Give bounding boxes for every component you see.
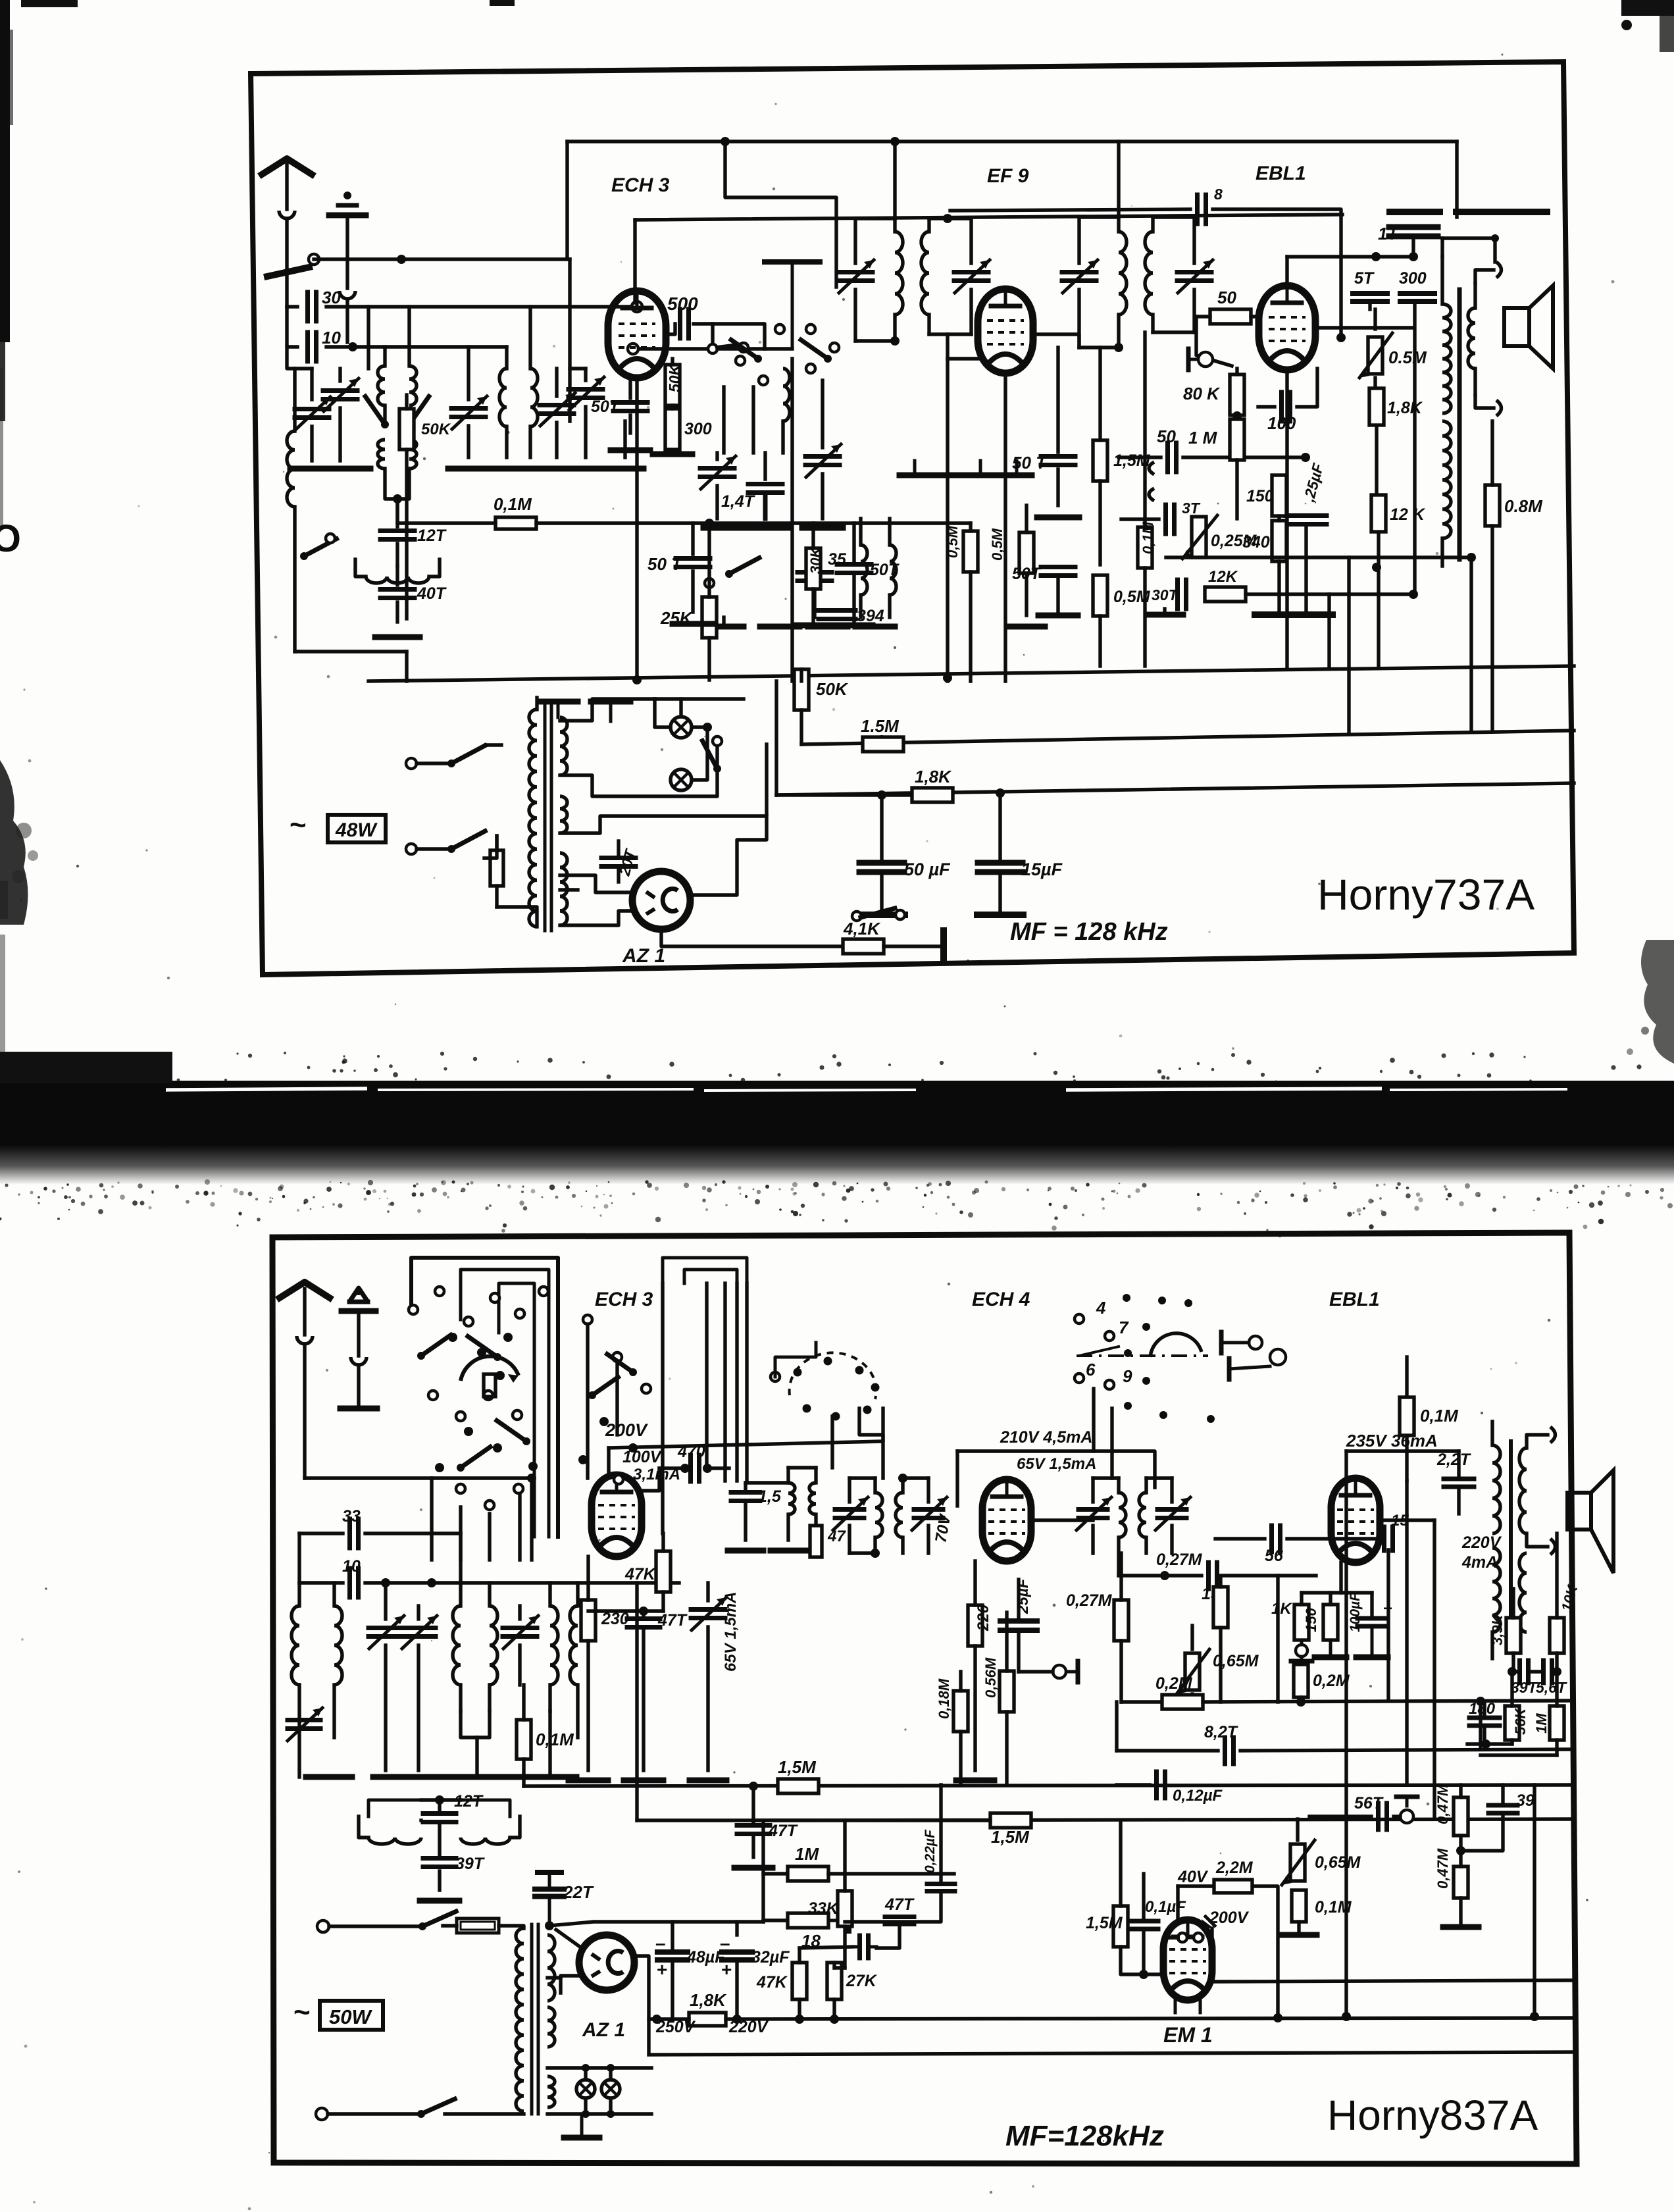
IF2 varcap B — [1177, 217, 1213, 332]
label 50T ech3 — [591, 398, 621, 416]
wire x866 drop — [568, 259, 571, 421]
label 0,1M em — [1315, 1898, 1352, 1916]
resistor 56K — [1505, 1706, 1519, 1740]
switch S2b — [405, 396, 429, 428]
wire cath line — [588, 1609, 663, 1612]
node lampb2 — [582, 2110, 590, 2118]
variable capacitor CA2 — [323, 369, 359, 461]
svg-text:32µF: 32µF — [751, 1948, 790, 1967]
label 47K c — [756, 1973, 788, 1992]
grid top bar — [765, 262, 820, 346]
resistor 0.1M em — [1292, 1890, 1306, 1922]
wire 150-340 — [1277, 516, 1281, 521]
wire IF2 topA — [1079, 215, 1119, 219]
svg-text:30K: 30K — [807, 546, 824, 574]
svg-text:1M: 1M — [1533, 1713, 1550, 1734]
wire 13T a — [1121, 517, 1159, 521]
resistor 1.8K row — [912, 788, 953, 802]
IF1 coil B — [921, 219, 929, 334]
wire 220 dn — [973, 1646, 977, 1770]
node y1131a — [877, 735, 886, 744]
resistor 18 — [788, 1913, 828, 1928]
svg-text:0,12µF: 0,12µF — [1173, 1787, 1223, 1805]
wire 15em up — [1119, 1820, 1122, 1906]
wire IFB1 topA — [850, 1476, 875, 1479]
switch antenna — [267, 254, 319, 276]
ground 837 antenna — [340, 1287, 377, 1408]
label 1M b — [795, 1844, 819, 1864]
label 32 plus — [721, 1959, 732, 1980]
svg-text:1,5M: 1,5M — [1086, 1914, 1123, 1932]
wire long vert 1102 — [723, 1283, 726, 1481]
label 1,5M b1 — [778, 1757, 817, 1777]
svg-text:12T: 12T — [417, 527, 447, 545]
svg-text:0,27M: 0,27M — [1156, 1551, 1203, 1569]
svg-text:10: 10 — [342, 1557, 361, 1576]
scan artifact left edge streak — [0, 0, 13, 527]
svg-text:0,2M: 0,2M — [1155, 1674, 1193, 1693]
stub 18 — [828, 1910, 849, 1931]
label 35 — [828, 550, 847, 569]
wire 470 R — [706, 1466, 729, 1470]
wire lampb top — [547, 2066, 651, 2069]
label 65V 1,5mA — [722, 1592, 740, 1672]
label 300 out — [1399, 269, 1427, 288]
wire 1.8Kb R — [726, 2018, 1574, 2019]
capacitor 8 — [1198, 195, 1206, 224]
wire 15em dn — [1121, 1947, 1163, 1974]
wire 1.8Kb L — [649, 2017, 689, 2020]
tube V8 EM1 — [1163, 1920, 1212, 2000]
wire 027 dn — [1119, 1641, 1123, 1702]
resistor 1K — [1294, 1605, 1309, 1640]
wire 1M vert — [761, 1823, 765, 1922]
svg-text:4,1K: 4,1K — [843, 919, 881, 939]
capacitor 20T — [601, 841, 636, 882]
switch heater — [702, 736, 722, 773]
output transformer core — [1458, 290, 1462, 559]
wire long vert 1007 — [661, 1283, 664, 1468]
wire plate-500 — [666, 324, 675, 334]
wire 47Td dn — [876, 1925, 900, 1948]
wire 500-osc — [694, 324, 765, 349]
label 235V 36mA — [1346, 1431, 1438, 1451]
label 48uF — [686, 1948, 725, 1967]
wire IF1 topA — [855, 217, 895, 220]
ground LB5 — [540, 1774, 576, 1780]
resistor 0.65M em — [1282, 1840, 1315, 1885]
node 80K — [1232, 411, 1242, 421]
label 4,1K — [843, 919, 881, 939]
label 20T — [615, 846, 639, 878]
resistor 0.47M no2 — [1454, 1866, 1468, 1898]
wire join 2667 — [1481, 1753, 1557, 1757]
wire fuse-prim — [497, 907, 537, 927]
svg-text:50T: 50T — [870, 561, 900, 579]
svg-text:8,2T: 8,2T — [1204, 1723, 1239, 1741]
wire 50Ka dn — [799, 710, 803, 744]
wire y795 ext — [792, 521, 971, 525]
wire az1 p2 — [560, 911, 634, 925]
wire 210V top — [957, 1451, 1155, 1487]
label 300 — [684, 420, 712, 438]
label 18 — [801, 1931, 821, 1951]
wire bus 2714 — [524, 1785, 1574, 1786]
node 15b — [1160, 1571, 1169, 1580]
wire lv nest2 — [684, 1270, 737, 1481]
node 39Ta — [1508, 1667, 1517, 1676]
variable capacitor CR2 — [540, 369, 575, 457]
IFB2 coil A — [1119, 1478, 1126, 1576]
ground (antenna input) — [329, 192, 366, 342]
label 500 — [667, 294, 698, 314]
svg-text:1,8K: 1,8K — [1387, 399, 1423, 417]
node 18b2 — [732, 2015, 742, 2024]
resistor 25K — [702, 597, 717, 638]
wire EF9 plate — [1033, 334, 1079, 347]
label 50T avc — [647, 554, 683, 574]
label 100V — [622, 1448, 663, 1466]
node eblt2 — [1409, 252, 1418, 261]
svg-text:30T: 30T — [1152, 586, 1179, 604]
label 150 — [1246, 487, 1274, 505]
wire 22M R — [1253, 1886, 1278, 2018]
wire 15M up — [1098, 347, 1102, 440]
capacitor 0.1uF — [1129, 1921, 1158, 1929]
wire input bus B — [368, 305, 633, 308]
tube V5 ECH3b — [592, 1475, 642, 1556]
svg-text:50K: 50K — [421, 421, 451, 438]
wire sec3 tap — [560, 888, 578, 891]
switch mains2 b — [317, 1911, 456, 1932]
ground CB2 — [419, 1774, 458, 1780]
wire 15M dn — [1098, 481, 1102, 565]
svg-text:40T: 40T — [417, 584, 447, 603]
wire rf link — [570, 367, 586, 370]
capacitor 15uF — [978, 794, 1023, 915]
svg-text:0,1µF: 0,1µF — [1145, 1898, 1186, 1916]
svg-text:0,2M: 0,2M — [1313, 1672, 1350, 1690]
ground 4.1K — [940, 931, 947, 962]
wire 047 mid — [1459, 1836, 1462, 1866]
label Horny737A — [1317, 870, 1534, 919]
svg-text:1,5M: 1,5M — [991, 1827, 1030, 1847]
label 25uF — [1300, 461, 1327, 504]
frame Horny837A border — [272, 1233, 1577, 2164]
wire EF9 down — [1003, 372, 1007, 681]
wire ebl1 top — [1287, 255, 1413, 258]
jack trio — [1291, 1640, 1312, 1661]
node j2650 — [1481, 1739, 1490, 1749]
wire 235 line — [1346, 1449, 1459, 1453]
pilot lamp 1b — [576, 2080, 595, 2098]
wire vert 2020 — [1327, 594, 1331, 667]
wire trap L — [359, 1816, 368, 1838]
wire ECH3 down — [635, 379, 638, 681]
label pin6 — [1086, 1360, 1096, 1379]
wire 12Kv dn — [1377, 532, 1380, 666]
node 56Ta — [1552, 1667, 1561, 1676]
wire trio t3 — [1370, 1593, 1373, 1618]
output transformer 837 core — [1509, 1441, 1513, 1632]
resistor 150b — [1323, 1605, 1338, 1640]
svg-text:50K: 50K — [816, 679, 849, 699]
wire 01em dn — [1297, 1922, 1300, 1932]
wire 200V bus — [609, 1408, 883, 1448]
node antd — [527, 1474, 536, 1483]
resistor 12K v — [1371, 495, 1386, 532]
svg-text:Ɔ: Ɔ — [0, 517, 21, 560]
speaker coil — [1468, 283, 1475, 395]
capacitor 300 out — [1400, 294, 1434, 301]
node 8g — [1336, 333, 1346, 342]
svg-text:0,47M: 0,47M — [1434, 1784, 1451, 1824]
wire vert 2050 — [1347, 557, 1350, 731]
svg-text:50K: 50K — [666, 363, 683, 392]
wire sc drop2 — [1110, 1408, 1113, 1478]
label 0,12uF — [1173, 1787, 1223, 1805]
coil L2a — [378, 347, 385, 405]
resistor 50K mid — [399, 409, 414, 450]
svg-text:47K: 47K — [624, 1565, 657, 1583]
ground ech3a — [611, 448, 650, 453]
resistor 1.5M ef9 — [1093, 440, 1107, 481]
variable capacitor CR3 — [569, 369, 604, 457]
svg-text:47T: 47T — [768, 1822, 799, 1840]
label 0,47M no1 — [1434, 1784, 1451, 1824]
wire 05Ma dn — [1025, 573, 1028, 615]
label 50T mid — [870, 561, 900, 579]
trap box — [368, 1800, 510, 1816]
wire grid in — [1196, 317, 1232, 366]
wire 47Tc up — [642, 1611, 645, 1618]
band switch contacts — [409, 1287, 548, 1510]
svg-text:50: 50 — [1157, 426, 1176, 446]
wire 02h L — [1121, 1700, 1161, 1703]
node IF1B — [943, 214, 952, 223]
svg-text:0,1M: 0,1M — [1140, 521, 1156, 554]
wire 33K dn — [843, 1926, 846, 1968]
switch S1 — [300, 534, 336, 560]
coil L5 — [499, 347, 507, 457]
node 02h — [1296, 1697, 1306, 1707]
ground row IF c — [965, 461, 996, 475]
wire IF2 frameA — [1079, 346, 1119, 349]
wire 41K R — [884, 944, 941, 948]
svg-text:50 T: 50 T — [1012, 453, 1048, 473]
capacitor 47T d — [885, 1917, 914, 1924]
wire 027 up — [1119, 1553, 1123, 1600]
svg-text:27K: 27K — [846, 1972, 878, 1990]
wire 50Tm dn — [852, 573, 855, 625]
wire heater2 — [560, 744, 717, 796]
ground 47Tc — [624, 1778, 663, 1784]
resistor 0.27M no2 — [1213, 1587, 1228, 1628]
svg-text:470: 470 — [677, 1443, 705, 1461]
wire EF9 grid — [948, 357, 978, 360]
switch standby — [852, 908, 905, 921]
capacitor 56T — [1379, 1803, 1387, 1830]
svg-text:0,47M: 0,47M — [1434, 1848, 1451, 1889]
svg-text:0,1M: 0,1M — [494, 494, 532, 514]
speaker wiring 837 — [1527, 1427, 1556, 1555]
coil ob1 — [788, 1468, 795, 1540]
svg-text:15µF: 15µF — [1021, 860, 1063, 879]
wire IF1 frameA — [855, 339, 895, 342]
tube V3 EBL1 — [1259, 286, 1315, 370]
label 220V 4mA2 — [1461, 1553, 1498, 1572]
node 18K — [1372, 563, 1381, 572]
label 25uF b — [1014, 1578, 1031, 1614]
resistor 30K — [806, 548, 821, 589]
node 01uF — [1139, 1970, 1148, 1979]
ground trafo a — [538, 702, 578, 717]
capacitor 8.2T — [1225, 1737, 1234, 1764]
wire 01Mv dn — [1143, 568, 1146, 666]
node det — [1301, 453, 1310, 462]
node eblt — [1371, 252, 1381, 261]
svg-text:39T: 39T — [1511, 1679, 1538, 1696]
wire bus2766 L — [637, 1818, 990, 1822]
label 5T — [1354, 269, 1375, 288]
label 30K — [807, 546, 824, 574]
resistor 50K avc — [794, 669, 809, 710]
label 50T cath — [1012, 565, 1042, 583]
label 394 — [857, 607, 884, 625]
capacitor 50uF — [859, 795, 904, 915]
variable capacitor osc1 — [700, 453, 736, 519]
resistor 0.5M b — [1093, 575, 1107, 616]
wire 100V wire — [642, 1468, 659, 1491]
wire ifb3 L — [1331, 1537, 1380, 1540]
label 0,5M mid — [944, 525, 961, 558]
wire 05Mm dn — [969, 572, 972, 681]
label 0,22uF — [923, 1829, 938, 1873]
tube V9 EBL1b — [1331, 1478, 1380, 1562]
label 0,1M top — [1420, 1406, 1459, 1426]
wire 08M up — [1490, 421, 1494, 485]
wire 22T dn — [1457, 1487, 1460, 1514]
wire 180 dn — [1483, 1726, 1486, 1744]
wire top coupling — [950, 209, 1190, 211]
wire 230 up — [586, 1556, 590, 1600]
wire 50K up — [671, 359, 674, 365]
svg-text:47T: 47T — [657, 1611, 688, 1630]
wire lv 1007b — [661, 1468, 664, 1533]
coil L3b — [409, 440, 417, 469]
switch mains1 b — [316, 2099, 455, 2120]
wire 220 up — [973, 1561, 977, 1605]
IFB1 coil B — [896, 1478, 903, 1553]
svg-text:MF=128kHz: MF=128kHz — [1005, 2120, 1164, 2152]
wire 50Tc dn — [1056, 576, 1059, 615]
resistor 47K c — [792, 1963, 807, 1999]
frame Horny737A border — [251, 62, 1574, 975]
wire long vert 1120 — [735, 1283, 738, 1481]
wire ebl out — [1380, 1518, 1434, 1522]
label 1,5M b2 — [991, 1827, 1030, 1847]
wire rv x2332 — [1533, 1785, 1536, 2018]
speaker coil 837 — [1519, 1448, 1527, 1533]
wire 1M dn — [1235, 460, 1238, 519]
wire 15b L — [1119, 1574, 1202, 1577]
label 50 det — [1157, 426, 1176, 446]
wire 15 dn — [744, 1501, 747, 1540]
scan artifact top edge marks — [21, 0, 1674, 52]
wire 25uF dn — [1304, 525, 1307, 615]
svg-text:210V 4,5mA: 210V 4,5mA — [1000, 1428, 1092, 1447]
svg-text:0,65M: 0,65M — [1315, 1853, 1361, 1872]
antenna 837 — [280, 1282, 330, 1478]
svg-text:EF 9: EF 9 — [987, 165, 1029, 187]
label 50 ebl1 — [1217, 288, 1236, 307]
IF2 coil B — [1145, 217, 1153, 332]
ground trafo b — [591, 702, 630, 721]
svg-text:MF = 128 kHz: MF = 128 kHz — [1010, 918, 1168, 946]
wire LB3 gnd — [461, 1711, 490, 1737]
ground CR4 — [607, 466, 644, 472]
wire y330 drop — [633, 220, 636, 303]
resistor 0.65M s — [1177, 1649, 1209, 1694]
node bus2 — [890, 137, 900, 146]
resistor 0.1M 837 — [517, 1720, 531, 1759]
label EM 1 — [1163, 2023, 1213, 2047]
wire 30K up — [811, 523, 815, 548]
wire long vert 1135 — [745, 1283, 748, 1481]
svg-text:0.8M: 0.8M — [1504, 496, 1543, 516]
wire 065 dn — [1190, 1694, 1194, 1702]
resistor 1M b — [788, 1866, 828, 1881]
pilot lamp 1 — [671, 717, 692, 738]
capacitor 50 det — [1168, 443, 1177, 472]
svg-text:ECH 3: ECH 3 — [595, 1289, 653, 1310]
svg-text:25µF: 25µF — [1014, 1578, 1031, 1614]
ground 50T avc — [672, 621, 713, 627]
mic jack — [1188, 349, 1213, 370]
svg-text:1 M: 1 M — [1188, 428, 1218, 448]
tube V4 AZ1 — [632, 871, 690, 929]
wire IFB2 top — [1093, 1476, 1119, 1479]
wire 05Ma up — [1025, 505, 1028, 532]
resistor 12K h — [1205, 587, 1246, 602]
ground 01em — [1281, 1932, 1317, 1938]
IFB1 coil A — [875, 1478, 882, 1553]
wire y600 stub — [383, 405, 386, 421]
switch S2a — [365, 396, 389, 428]
wire sc drop — [1092, 1389, 1095, 1451]
wire ECH3 top lead — [725, 141, 836, 287]
ground osc1b — [749, 525, 790, 531]
wire bsw drop4 — [518, 1494, 521, 1560]
label MF737 — [1010, 918, 1168, 946]
capacitor 50T mid — [837, 565, 871, 573]
svg-text:50T: 50T — [1012, 565, 1042, 583]
label 0,27M no2 — [1156, 1551, 1203, 1569]
wire 18K dn — [1375, 426, 1378, 493]
label 180 — [1469, 1700, 1496, 1718]
ground 50T scr — [1037, 515, 1079, 521]
wire az1 cath — [661, 929, 848, 946]
svg-text:48W: 48W — [335, 819, 378, 841]
svg-text:50 µF: 50 µF — [904, 860, 951, 879]
svg-text:3,9K: 3,9K — [1489, 1613, 1506, 1645]
wire bus 3122 — [649, 2052, 1574, 2055]
resistor 50K ech3 — [665, 365, 680, 405]
coil sec lower 837 — [1519, 1553, 1527, 1632]
label EBL 1 (837) — [1329, 1289, 1380, 1310]
svg-text:+: + — [657, 1959, 667, 1980]
svg-text:220: 220 — [975, 1604, 992, 1632]
